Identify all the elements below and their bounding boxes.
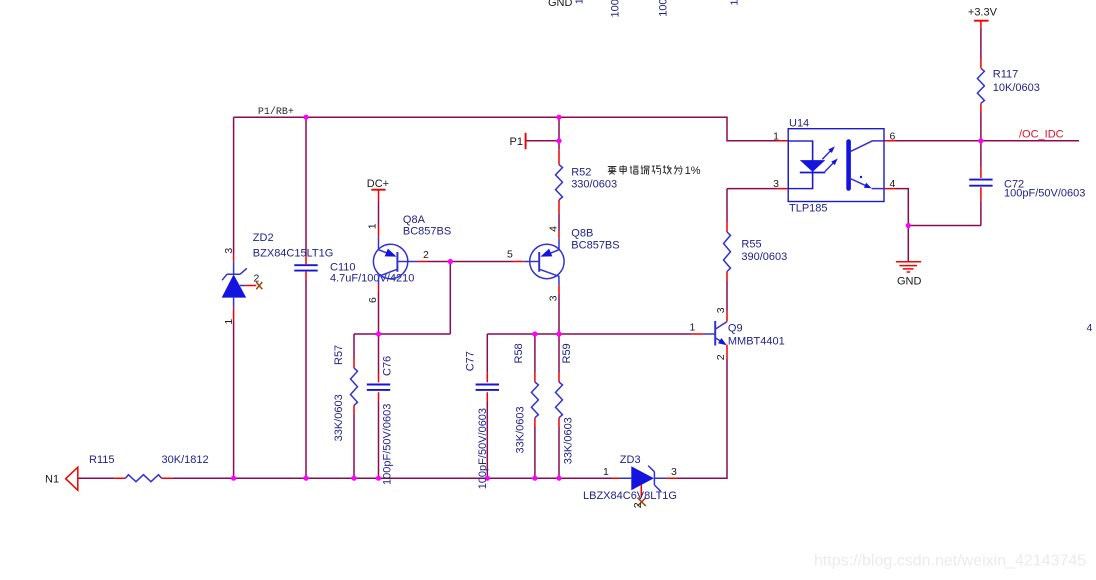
svg-text:2: 2 [715, 354, 727, 360]
zener diode ZD2 [233, 262, 235, 308]
zener ZD2 pins 3,1 [233, 254, 235, 321]
no-ERC cross on ZD2 pin 2 [256, 282, 262, 289]
U14 LED emission arrows [822, 151, 831, 160]
svg-text:P1/RB+: P1/RB+ [258, 106, 294, 118]
resistor R57 [351, 368, 358, 405]
svg-text:4: 4 [548, 226, 560, 232]
wire R57 vertical [353, 334, 355, 478]
wire P1 port to junction [526, 140, 559, 142]
junction Q8B collector / R59 [556, 331, 561, 336]
svg-text:Q9: Q9 [728, 323, 743, 335]
zener ZD3 pins 1,3 [612, 477, 678, 479]
transistor Q8B pin stubs [513, 231, 559, 293]
svg-text:R117: R117 [993, 69, 1018, 81]
wire C110 branch vertical [305, 117, 307, 478]
port N1 [66, 467, 78, 490]
transistor Q8B BC857BS (PNP, mirrored) [530, 244, 564, 278]
resistor R59 pins [558, 373, 560, 428]
svg-text:100pF/50V/0603: 100pF/50V/0603 [477, 408, 489, 489]
wire base junction down [449, 262, 451, 335]
junction bus / R58 [532, 476, 537, 481]
junction bus / R57 [351, 476, 356, 481]
capacitor C76 [367, 385, 390, 390]
junction Q8A collector / C76 [376, 331, 381, 336]
svg-text:/OC_IDC: /OC_IDC [1019, 129, 1064, 141]
svg-text:MMBT4401: MMBT4401 [728, 335, 785, 347]
junction top bus / R52 column [556, 115, 561, 120]
svg-text:BC857BS: BC857BS [571, 239, 619, 251]
svg-text:1: 1 [773, 130, 779, 142]
wire U14 pin4 to GND [896, 189, 909, 262]
svg-text:R59: R59 [561, 343, 573, 363]
port P1 [525, 133, 527, 150]
svg-text:Q8B: Q8B [571, 227, 593, 239]
svg-text:R58: R58 [513, 343, 525, 363]
wire R57/C76 top row [354, 333, 450, 335]
svg-text:ZD2: ZD2 [253, 232, 274, 244]
capacitor C76 pins [378, 373, 380, 401]
junction top bus / C110 [303, 115, 308, 120]
svg-text:4: 4 [890, 178, 896, 190]
resistor R117 pins [980, 21, 982, 113]
svg-text:330/0603: 330/0603 [571, 179, 617, 191]
zener diode ZD3 [620, 477, 667, 479]
resistor R52 [556, 165, 563, 200]
wire DC+/Q8A/C76 column [378, 201, 380, 478]
svg-text:LBZX84C6V8LT1G: LBZX84C6V8LT1G [583, 490, 677, 502]
wire Q8A base to Q8B base [427, 261, 514, 263]
transistor Q9 pin stubs [692, 311, 727, 359]
svg-text:1: 1 [690, 322, 696, 334]
svg-text:2: 2 [254, 273, 260, 285]
svg-text:1: 1 [367, 223, 379, 229]
svg-text:R52: R52 [571, 166, 591, 178]
junction bus / C77 [485, 476, 490, 481]
junction bus / ZD2 [231, 476, 236, 481]
wire bottom bus N1 net [78, 477, 612, 479]
svg-text:+3.3V: +3.3V [968, 7, 998, 19]
wire U14 pin3 row [727, 188, 777, 190]
svg-text:3: 3 [548, 295, 560, 301]
svg-text:5: 5 [507, 249, 513, 261]
wire ZD3 cathode to Q9 emitter [678, 358, 728, 478]
U14 phototransistor [846, 142, 851, 189]
svg-text:C76: C76 [382, 356, 394, 376]
wire U14 pin3 / R55 / Q9 collector column [726, 189, 728, 311]
op-amp U14 TLP185 optocoupler body [788, 129, 884, 202]
svg-text:1: 1 [729, 0, 741, 6]
wire +3.3V / R117 / C72 column [980, 28, 982, 226]
junction GND node [906, 223, 911, 228]
junction Q8A base [448, 259, 453, 264]
svg-text:3: 3 [773, 178, 779, 190]
power symbol DC+ [371, 189, 385, 191]
svg-text:Q8A: Q8A [403, 214, 426, 226]
svg-text:BZX84C15LT1G: BZX84C15LT1G [253, 248, 334, 260]
svg-text:2: 2 [423, 249, 429, 261]
capacitor C77 [476, 385, 499, 390]
wire net P1/RB+ top bus [234, 117, 777, 141]
ground symbol GND [896, 262, 921, 272]
capacitor C77 pins [486, 373, 488, 402]
capacitor C72 pins [980, 167, 982, 201]
svg-text:1: 1 [603, 466, 609, 478]
svg-text:33K/0603: 33K/0603 [562, 417, 574, 464]
svg-text:U14: U14 [789, 118, 809, 130]
capacitor C110 pins [305, 256, 307, 280]
wire mid row to Q9 base [487, 333, 691, 335]
svg-text:1%: 1% [685, 165, 701, 177]
annotation text: 要申请编码改为1% [608, 165, 682, 174]
svg-text:1: 1 [223, 319, 235, 325]
junction bus / C76 [376, 476, 381, 481]
svg-text:BC857BS: BC857BS [403, 226, 451, 238]
svg-text:DC+: DC+ [367, 178, 389, 190]
svg-text:ZD3: ZD3 [620, 454, 641, 466]
svg-text:R115: R115 [89, 454, 114, 466]
svg-text:C77: C77 [465, 351, 477, 371]
wire R58 vertical [534, 334, 536, 478]
svg-text:https://blog.csdn.net/weixin_4: https://blog.csdn.net/weixin_42143745 [814, 553, 1086, 570]
junction bus / C110 [303, 476, 308, 481]
transistor Q9 MMBT4401 (NPN) [714, 321, 716, 346]
wire GND junction to C72 [908, 225, 981, 227]
resistor R58 [531, 382, 538, 418]
zener ZD2 pin 2 stub [246, 285, 257, 287]
svg-text:390/0603: 390/0603 [741, 251, 787, 263]
resistor R58 pins [534, 373, 536, 428]
power DC+ stub [378, 190, 380, 201]
junction R58 top [532, 331, 537, 336]
svg-text:6: 6 [367, 297, 379, 303]
resistor R59 [556, 382, 563, 418]
junction /OC_IDC / R117 / C72 [978, 138, 983, 143]
svg-text:33K/0603: 33K/0603 [333, 394, 345, 441]
resistor R52 pins [558, 149, 560, 213]
svg-text:TLP185: TLP185 [789, 202, 828, 214]
svg-text:33K/0603: 33K/0603 [514, 406, 526, 453]
svg-text:100pF/50V/0603: 100pF/50V/0603 [1004, 187, 1085, 199]
svg-text:3: 3 [715, 307, 727, 313]
capacitor C72 [969, 180, 992, 186]
no-ERC cross on ZD3 pin 2 [638, 498, 646, 506]
resistor R55 pins [726, 222, 728, 281]
junction bus / R59 [556, 476, 561, 481]
resistor R115 [125, 475, 161, 482]
svg-text:R57: R57 [333, 345, 345, 365]
svg-text:6: 6 [890, 130, 896, 142]
transistor Q8A pin stubs [379, 226, 427, 291]
resistor R117 [977, 68, 984, 103]
transistor Q8A BC857BS (PNP) [373, 244, 407, 278]
svg-text:1: 1 [573, 0, 585, 4]
svg-text:30K/1812: 30K/1812 [162, 454, 209, 466]
wire R52/Q8B/R59 column [558, 117, 560, 478]
wire ZD2 branch vertical [233, 117, 235, 478]
svg-text:3: 3 [671, 466, 677, 478]
svg-text:GND: GND [548, 0, 573, 9]
svg-text:100pF/50V/0603: 100pF/50V/0603 [382, 404, 394, 485]
svg-text:N1: N1 [45, 473, 59, 485]
power symbol +3.3V [974, 20, 989, 22]
resistor R57 pins [353, 359, 355, 414]
wire C77 vertical [486, 334, 488, 478]
optocoupler U14 pin stubs [777, 141, 896, 189]
svg-text:R55: R55 [741, 238, 761, 250]
junction P1 port [556, 138, 561, 143]
U14 LED symbol [812, 141, 814, 189]
svg-text:4: 4 [1087, 322, 1093, 334]
svg-text:3: 3 [223, 248, 235, 254]
svg-text:10K/0603: 10K/0603 [993, 82, 1040, 94]
svg-text:P1: P1 [510, 136, 523, 148]
zener ZD3 pin 2 stub [640, 485, 642, 498]
svg-text:100: 100 [657, 0, 669, 17]
wire /OC_IDC net [896, 140, 1080, 142]
resistor R115 pins [114, 477, 172, 479]
capacitor C110 [294, 265, 317, 270]
svg-text:100: 100 [609, 0, 621, 18]
svg-text:GND: GND [897, 276, 922, 288]
svg-text:2: 2 [632, 502, 644, 508]
resistor R55 [724, 232, 731, 272]
